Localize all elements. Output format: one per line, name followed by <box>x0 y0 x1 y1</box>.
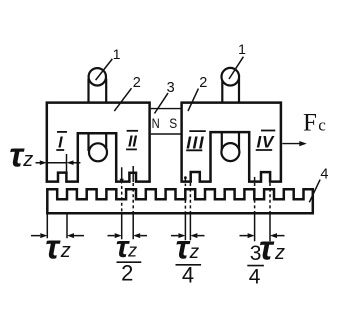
svg-text:z: z <box>22 149 33 171</box>
svg-text:z: z <box>127 240 137 260</box>
svg-text:2: 2 <box>133 75 141 91</box>
svg-text:1: 1 <box>238 41 246 57</box>
svg-text:4: 4 <box>249 266 261 289</box>
svg-text:IV: IV <box>256 133 275 152</box>
svg-text:S: S <box>169 115 177 131</box>
svg-text:z: z <box>60 240 71 262</box>
svg-text:3: 3 <box>250 242 262 265</box>
svg-text:4: 4 <box>182 262 194 287</box>
svg-text:4: 4 <box>320 166 328 182</box>
svg-text:N: N <box>152 116 160 131</box>
svg-text:τ: τ <box>45 228 61 266</box>
svg-text:1: 1 <box>113 46 121 62</box>
svg-text:2: 2 <box>199 75 207 91</box>
svg-text:c: c <box>318 115 326 134</box>
svg-text:z: z <box>274 242 285 264</box>
svg-text:2: 2 <box>121 261 133 286</box>
svg-text:III: III <box>186 132 205 152</box>
svg-text:τ: τ <box>176 229 191 266</box>
svg-text:3: 3 <box>167 80 175 96</box>
svg-text:I: I <box>58 135 63 152</box>
svg-text:F: F <box>303 109 317 136</box>
svg-text:z: z <box>189 242 200 263</box>
svg-text:II: II <box>128 134 137 151</box>
